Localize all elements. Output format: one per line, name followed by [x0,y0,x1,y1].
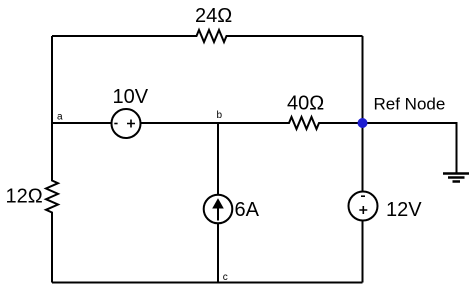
voltage source V1 10V circle [112,109,141,138]
wire bottom [52,282,363,284]
svg-text:12Ω: 12Ω [6,186,43,208]
V1 plus sign [127,120,135,128]
wire middle horizontal with resistor 40Ω zigzag [141,117,363,129]
svg-text:24Ω: 24Ω [195,5,232,27]
V2 plus sign [359,206,367,214]
wire left with resistor 12Ω zigzag [46,36,58,283]
node Ref (blue dot) [358,118,368,128]
wire middle horizontal left segment (node a to 10V source) [52,122,112,124]
current source I1 6A circle [204,195,233,224]
svg-text:b: b [217,110,223,121]
voltage source V2 12V circle [349,192,378,221]
wire right upper [362,36,364,192]
svg-text:12V: 12V [386,199,422,221]
wire top with resistor 24Ω zigzag [52,30,363,42]
svg-text:c: c [223,272,228,283]
svg-text:10V: 10V [113,86,149,108]
svg-text:6A: 6A [235,199,260,221]
svg-text:Ref Node: Ref Node [374,94,446,113]
wire right lower [362,221,364,283]
wire from ref node to ground [363,123,457,173]
I1 arrow shaft [217,207,219,221]
svg-text:a: a [57,112,63,123]
wire middle vertical lower (6A source to node c) [217,224,219,283]
I1 arrow head [212,198,224,208]
svg-text:40Ω: 40Ω [287,93,324,115]
wire middle vertical upper (node b down to 6A source) [217,123,219,195]
V2 minus sign [361,195,365,197]
ground symbol [443,174,469,182]
V1 minus sign [114,123,117,125]
